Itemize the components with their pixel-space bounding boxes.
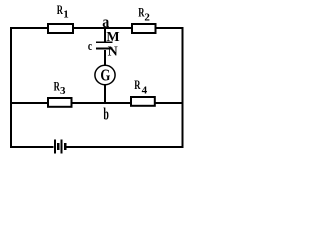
- resistor R1: [48, 24, 73, 33]
- wire: middle horizontal (node b run): [10, 102, 183, 104]
- wire: bottom horizontal left of battery: [10, 146, 54, 148]
- svg-text:b: b: [103, 105, 109, 124]
- capacitor C plate N (bottom): [96, 48, 113, 50]
- label R3: [54, 79, 66, 98]
- battery cell 1 short plate: [57, 143, 60, 150]
- resistor R4: [131, 97, 155, 106]
- battery cell 2 long plate: [61, 140, 63, 154]
- wire: vertical from galvanometer to node b: [104, 85, 106, 102]
- wire: vertical from plate N to galvanometer: [104, 50, 106, 66]
- wire: left vertical side: [10, 27, 12, 148]
- wire: top horizontal (node a run): [10, 27, 183, 29]
- wire: vertical from node a to capacitor plate M: [104, 29, 106, 43]
- svg-text:c: c: [88, 38, 92, 53]
- svg-text:R: R: [134, 77, 141, 92]
- wire: bottom horizontal right of battery: [66, 146, 183, 148]
- battery cell 1 long plate: [54, 140, 56, 154]
- label R1: [57, 2, 69, 21]
- battery cell 2 short plate: [64, 143, 67, 150]
- svg-text:G: G: [100, 66, 110, 85]
- capacitor C plate M (top): [96, 41, 113, 43]
- svg-text:2: 2: [144, 11, 150, 23]
- svg-text:N: N: [108, 45, 118, 60]
- svg-text:4: 4: [142, 85, 148, 97]
- svg-text:M: M: [106, 30, 119, 45]
- galvanometer G: [95, 65, 115, 84]
- label R2: [138, 4, 150, 23]
- svg-text:a: a: [102, 14, 109, 31]
- resistor R2: [132, 24, 156, 33]
- svg-text:1: 1: [63, 9, 69, 21]
- resistor R3: [48, 98, 72, 107]
- wire: right vertical side: [181, 27, 183, 148]
- label R4: [134, 77, 147, 96]
- svg-text:3: 3: [60, 85, 66, 97]
